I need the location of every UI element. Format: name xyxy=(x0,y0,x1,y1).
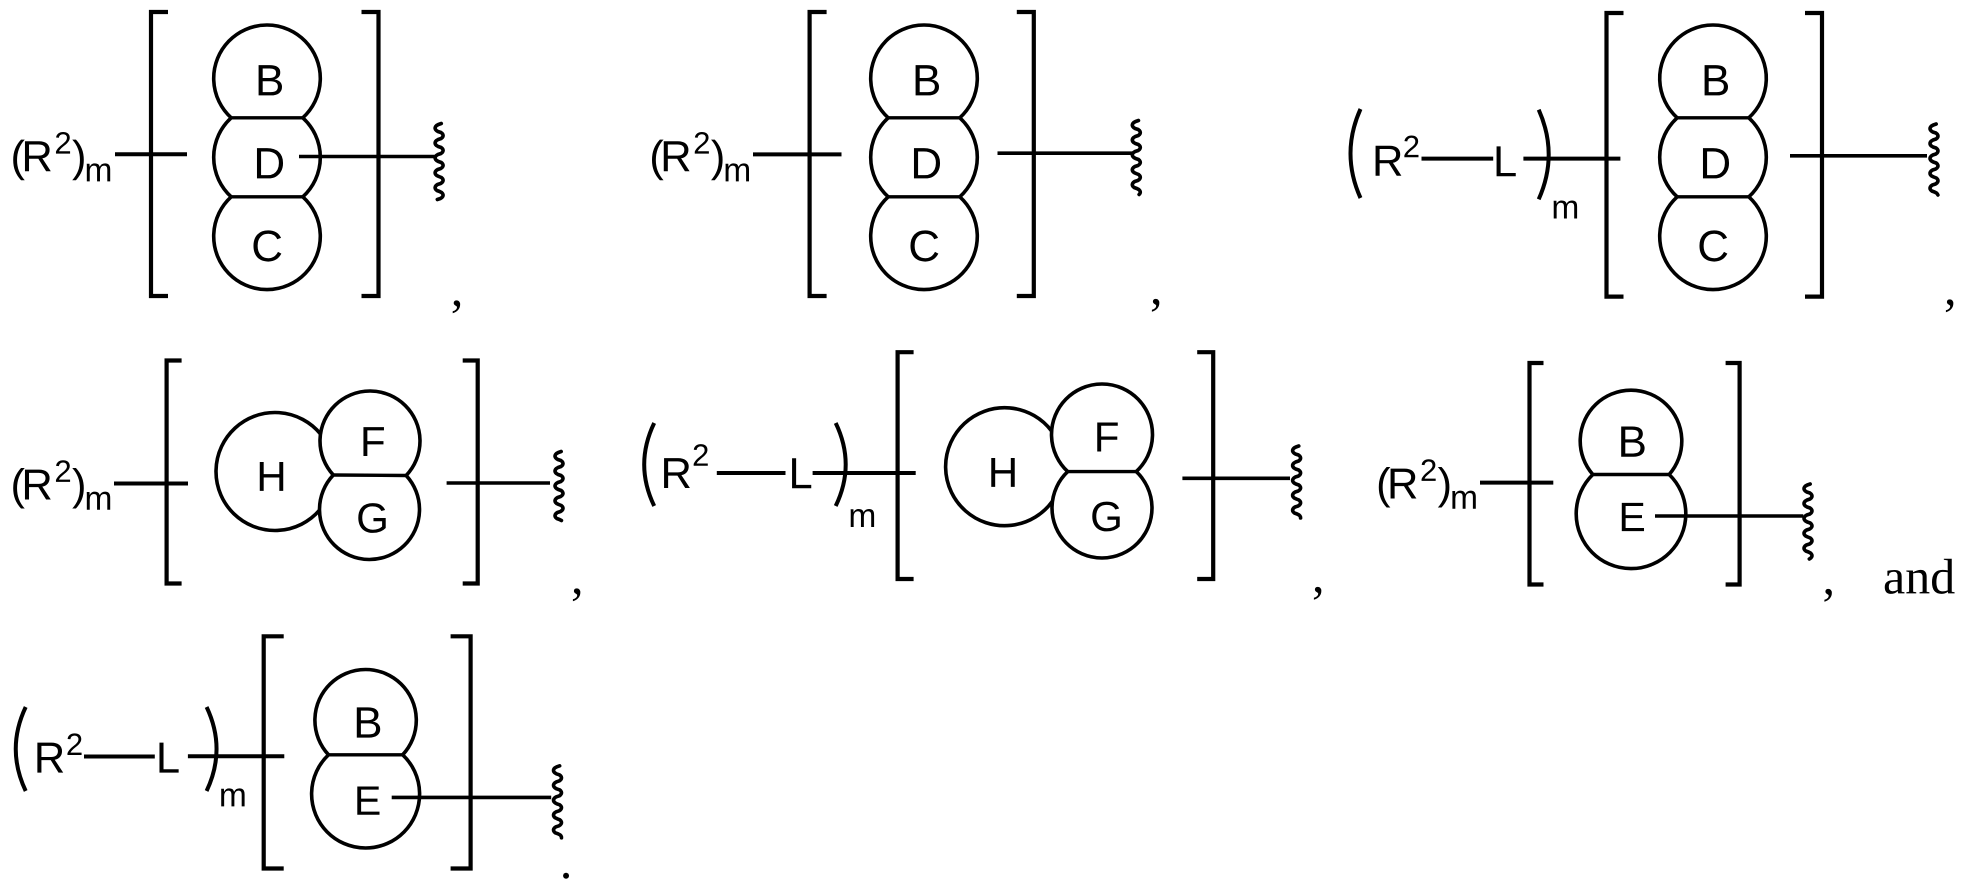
S6 ring letter E xyxy=(1622,503,1644,531)
S7 period xyxy=(563,873,569,879)
S1 left bracket xyxy=(151,12,168,296)
S1 fused-ring chord B/D xyxy=(231,116,303,119)
S4 bond to attachment xyxy=(447,481,550,485)
S5 bond to attachment xyxy=(1182,476,1290,480)
S3 left bracket xyxy=(1607,13,1624,297)
S6 text R xyxy=(1391,469,1417,499)
S3 superscript 2 xyxy=(1404,136,1418,158)
S7 text R xyxy=(37,743,63,773)
S6 ring E xyxy=(1576,475,1686,569)
S3 text R xyxy=(1376,146,1402,176)
S1 superscript 2 xyxy=(56,132,70,154)
S3 ring C xyxy=(1660,197,1767,290)
S1 right bracket xyxy=(362,12,379,296)
S5 fused-ring chord F/G xyxy=(1068,470,1137,473)
S7 wavy attachment bond xyxy=(554,766,562,838)
S5 ring F xyxy=(1051,384,1152,472)
S6 text ) xyxy=(1438,467,1450,508)
S7 ring B xyxy=(315,670,416,755)
S5 ring G xyxy=(1052,472,1152,558)
S1 ring letter D xyxy=(257,148,283,178)
S4 ring letter H xyxy=(260,462,283,491)
S5 ring letter G xyxy=(1092,502,1119,532)
S6 right bracket xyxy=(1726,363,1740,585)
S7 ring letter E xyxy=(357,786,379,814)
S3 bond to attachment xyxy=(1790,154,1927,158)
S1 bond from (R2)m xyxy=(115,152,187,156)
S3 ring letter D xyxy=(1703,148,1729,178)
S5 text L xyxy=(792,458,811,488)
S3 wavy attachment bond xyxy=(1930,124,1938,195)
S7 big right parenthesis xyxy=(207,707,217,791)
S2 ring B xyxy=(871,25,978,118)
S4 ring letter G xyxy=(358,503,385,533)
S6 ring letter B xyxy=(1621,426,1644,456)
S1 fused-ring chord D/C xyxy=(231,195,303,198)
S2 comma xyxy=(1152,299,1159,312)
S4 wavy attachment bond xyxy=(555,452,563,521)
S5 comma xyxy=(1314,587,1321,600)
S6 left bracket xyxy=(1530,363,1544,585)
S2 fused-ring chord D/C xyxy=(888,195,960,198)
S7 ring E xyxy=(312,755,420,848)
S6 bond from ring E to attachment xyxy=(1655,514,1803,518)
S7 ring letter B xyxy=(357,707,380,737)
S5 right bracket xyxy=(1197,352,1213,579)
S1 text ( xyxy=(13,140,25,181)
S2 text R xyxy=(664,141,690,171)
S5 ring H xyxy=(946,408,1053,526)
S4 comma xyxy=(573,588,580,601)
S6 superscript 2 xyxy=(1422,459,1436,481)
S3 bond L to bracket xyxy=(1523,157,1620,161)
S1 comma xyxy=(453,300,460,313)
S2 text ) xyxy=(711,140,723,181)
S4 left bracket xyxy=(167,361,182,584)
S5 ring letter H xyxy=(991,458,1014,487)
S7 fused-ring chord B/E xyxy=(329,753,403,756)
S4 ring G xyxy=(319,475,419,560)
S3 bond R-L xyxy=(1422,157,1494,161)
S2 ring C xyxy=(871,197,978,290)
S1 ring D xyxy=(214,118,321,197)
S2 superscript 2 xyxy=(695,132,709,154)
S6 subscript m xyxy=(1452,491,1475,509)
S3 ring letter C xyxy=(1699,230,1727,261)
S4 text ( xyxy=(13,468,25,509)
S2 right bracket xyxy=(1017,12,1034,296)
S6 comma xyxy=(1824,589,1831,602)
S4 right bracket xyxy=(463,361,478,584)
S7 text L xyxy=(159,743,178,773)
S3 fused-ring chord B/D xyxy=(1677,116,1749,119)
S2 wavy attachment bond xyxy=(1132,121,1140,195)
S5 bond L to bracket xyxy=(813,471,916,475)
S2 text ( xyxy=(652,140,664,181)
S5 subscript m xyxy=(851,509,874,527)
S1 text ) xyxy=(72,140,84,181)
S4 fused-ring chord F/G xyxy=(333,473,406,477)
S4 text R xyxy=(25,470,51,500)
S4 text ) xyxy=(72,468,84,509)
S2 ring D xyxy=(871,118,978,197)
S3 ring B xyxy=(1660,25,1767,118)
S1 subscript m xyxy=(87,163,110,181)
S3 big left parenthesis xyxy=(1351,109,1361,198)
S2 bond to attachment xyxy=(998,151,1134,155)
S4 ring H xyxy=(216,413,320,531)
S1 wavy attachment bond xyxy=(435,124,443,200)
S1 ring B xyxy=(214,25,321,118)
S3 ring D xyxy=(1660,118,1767,197)
S7 subscript m xyxy=(221,788,244,806)
S5 big right parenthesis xyxy=(836,423,846,506)
S7 bond R-L xyxy=(84,755,155,759)
S4 superscript 2 xyxy=(56,460,70,482)
S6 text ( xyxy=(1379,467,1391,508)
S4 ring letter F xyxy=(363,427,384,456)
S4 bond from (R2)m xyxy=(114,482,188,486)
S6 wavy attachment bond xyxy=(1804,484,1812,559)
S3 comma xyxy=(1946,299,1953,312)
S4 ring F xyxy=(320,391,420,476)
S5 superscript 2 xyxy=(694,444,708,466)
S1 ring letter B xyxy=(259,65,282,95)
S2 fused-ring chord B/D xyxy=(888,116,960,119)
S1 text R xyxy=(25,141,51,171)
S7 right bracket xyxy=(451,636,471,868)
S5 big left parenthesis xyxy=(644,423,654,506)
S5 text R xyxy=(664,458,690,488)
S4 subscript m xyxy=(87,492,110,510)
S5 bond R-L xyxy=(717,471,786,475)
S2 ring letter B xyxy=(916,65,939,95)
S2 ring letter C xyxy=(910,230,938,261)
S2 bond from (R2)m xyxy=(753,152,842,156)
S6 ring B xyxy=(1580,390,1682,474)
S3 ring letter B xyxy=(1705,65,1728,95)
S7 big left parenthesis xyxy=(16,707,26,791)
S5 left bracket xyxy=(898,352,914,579)
S3 subscript m xyxy=(1554,200,1577,218)
S6 bond from (R2)m xyxy=(1480,481,1553,485)
S7 bond L to bracket xyxy=(188,754,284,758)
S1 ring C xyxy=(214,197,321,290)
S1 ring letter C xyxy=(253,230,281,261)
S3 big right parenthesis xyxy=(1539,110,1549,200)
S2 left bracket xyxy=(810,12,827,296)
S6 fused-ring chord B/E xyxy=(1593,473,1669,476)
S1 bond from ring D to attachment xyxy=(299,155,436,159)
S3 text L xyxy=(1497,146,1516,176)
S5 ring letter F xyxy=(1097,423,1118,452)
S7 superscript 2 xyxy=(67,733,81,755)
S2 subscript m xyxy=(726,163,749,181)
S3 fused-ring chord D/C xyxy=(1677,195,1749,198)
S7 bond from ring E to attachment xyxy=(392,796,552,800)
S5 wavy attachment bond xyxy=(1293,446,1301,518)
S3 right bracket xyxy=(1805,13,1822,297)
S2 ring letter D xyxy=(914,148,940,178)
S6 word and xyxy=(1885,559,1955,594)
S7 left bracket xyxy=(264,636,284,868)
